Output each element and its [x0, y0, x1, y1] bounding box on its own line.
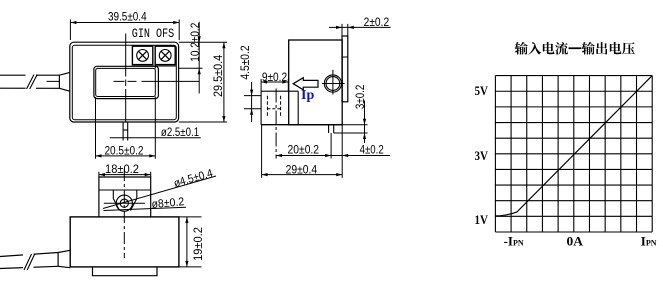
bottom view: vertical centre line: [123, 169, 125, 258]
svg-text:3V: 3V: [475, 148, 489, 163]
svg-text:18±0.2: 18±0.2: [105, 164, 139, 176]
dimension 3±0.2 extension top: [342, 124, 367, 126]
leader line for pin diameter: [110, 137, 201, 139]
dimension 29.5±0.4 extension bottom: [179, 121, 227, 123]
dimension 19±0.2 extension bottom: [179, 266, 202, 268]
bottom view: cable upper line: [0, 253, 58, 257]
svg-text:20±0.2: 20±0.2: [288, 145, 320, 157]
svg-text:39.5±0.4: 39.5±0.4: [108, 11, 147, 23]
dimension 10.2±0.2 line: [198, 22, 200, 94]
top view: cable break slash 1: [27, 75, 35, 90]
top view: terminal block bottom line: [132, 65, 177, 67]
svg-text:3±0.2: 3±0.2: [355, 85, 367, 109]
top view: screw 1 circle with cross: [137, 50, 149, 62]
top view: cable lower line: [0, 87, 59, 89]
top view: window outer outline: [94, 66, 158, 98]
top view: terminal screw square 2: [155, 46, 175, 64]
chart transfer-function curve: [495, 76, 652, 216]
top view: cable upper line: [0, 74, 59, 76]
bottom view: cable lower line: [0, 266, 58, 268]
svg-text:-IPN: -IPN: [504, 233, 524, 248]
bottom view: body outline: [70, 217, 179, 267]
dimension 20±0.2 and 4±0.2 line: [276, 155, 390, 157]
bottom view: horizontal centre line: [104, 202, 145, 204]
dimension 29±0.4 extension right: [341, 125, 343, 178]
dimension 20±0.2 pin centre extension: [330, 133, 332, 159]
side view: screw cross vertical: [332, 70, 334, 95]
dimension 9±0.2 extension left: [260, 79, 262, 91]
side view: cable centre line: [275, 89, 277, 159]
dimension 18±0.2 extension right: [150, 172, 152, 177]
side view: screw outer circle: [324, 75, 341, 92]
top view: sensor body outer outline: [70, 42, 179, 122]
svg-text:ø8±0.2: ø8±0.2: [151, 196, 185, 211]
bottom view: cable gland: [58, 250, 70, 267]
svg-text:GIN OFS: GIN OFS: [132, 27, 174, 41]
dimension 29.5±0.4 extension top: [179, 41, 227, 43]
dimension 4.5±0.2 extension top: [244, 95, 261, 97]
svg-text:5V: 5V: [475, 83, 489, 98]
bottom view: boss step line: [99, 189, 151, 191]
side view: bottom pin: [329, 125, 334, 133]
bottom view: bottom step: [93, 267, 158, 276]
dimension 39.5±0.4 extension left: [69, 20, 71, 41]
dimension 18±0.2 line: [99, 174, 151, 176]
dimension 9±0.2 extension right: [287, 79, 289, 91]
dimension 20.5±0.2 extension left: [95, 97, 97, 159]
dimension 10.2±0.2 extension: [179, 67, 203, 69]
top view: pin left side: [122, 122, 124, 141]
bottom view: boss inner left line: [112, 190, 114, 199]
bottom view: boss inner right line: [136, 190, 138, 199]
leader line ø4.5: [103, 176, 216, 209]
side view: mounting tab: [342, 36, 348, 102]
dimension 2±0.2 extension left: [341, 24, 343, 37]
side view: hidden hole bottom: [267, 108, 280, 110]
top view: sensor body inner outline: [72, 45, 176, 120]
svg-text:4±0.2: 4±0.2: [360, 145, 384, 157]
top view: line between terminal squares: [154, 65, 156, 69]
dimension 39.5±0.4 extension right: [178, 20, 180, 41]
dimension 19±0.2 line: [186, 217, 188, 267]
side view: gland block top: [261, 90, 298, 92]
side view: bottom edge extended: [261, 124, 342, 126]
side view: body outline: [289, 40, 343, 125]
dimension 4.5±0.2 extension bottom: [244, 108, 261, 110]
top view: window inner outline: [96, 68, 156, 96]
dimension 9±0.2 line: [261, 81, 288, 83]
dimension 2±0.2 line: [329, 26, 391, 28]
side view: hidden hole right: [280, 96, 282, 117]
dimension 29±0.4 line: [262, 174, 343, 176]
side view: hidden hole left: [266, 96, 268, 117]
svg-text:4.5±0.2: 4.5±0.2: [240, 45, 252, 79]
dimension 18±0.2 extension left: [98, 172, 100, 177]
bottom view: boss hole circle: [120, 199, 128, 207]
svg-text:9±0.2: 9±0.2: [262, 72, 287, 84]
bottom view: cable break slash 1: [24, 254, 32, 270]
bottom view: cable break slash 2: [27, 254, 35, 270]
top view: vertical centre line: [125, 34, 127, 123]
top view: cable break slash 2: [30, 75, 38, 90]
chart grid: [495, 76, 652, 232]
svg-text:IPN: IPN: [641, 233, 657, 248]
svg-text:19±0.2: 19±0.2: [193, 227, 205, 261]
dimension 29.5±0.4 line: [223, 42, 225, 122]
dimension 29±0.4 extension left: [261, 125, 263, 178]
dimension 3±0.2 line: [364, 101, 366, 144]
dimension 39.5±0.4 line: [70, 22, 179, 24]
side view: screw inner circle: [326, 77, 340, 91]
bottom view: boss outline: [99, 177, 151, 217]
arrow Ip (primary current direction): [293, 78, 318, 90]
side view: gland inner wall: [297, 91, 299, 125]
top view: terminal screw square 1: [132, 46, 152, 64]
svg-text:2±0.2: 2±0.2: [364, 17, 390, 29]
top view: horizontal centre line: [47, 80, 200, 82]
dimension 4.5±0.2 line: [251, 82, 253, 122]
dimension 20.5±0.2 extension right: [154, 97, 156, 159]
top view: cable break gap: [26, 73, 37, 90]
dimension 20.5±0.2 line: [96, 155, 156, 157]
bottom view: boss chamfer left: [113, 199, 119, 211]
svg-text:29±0.4: 29±0.4: [286, 165, 318, 177]
top view: cable gland trapezoid: [59, 72, 69, 91]
svg-text:20.5±0.2: 20.5±0.2: [104, 145, 143, 157]
svg-text:29.5±0.4: 29.5±0.4: [213, 54, 225, 97]
side view: screw cross horizontal: [322, 83, 345, 85]
top view: pin bottom cap: [123, 129, 128, 131]
svg-text:ø4.5±0.4: ø4.5±0.4: [172, 167, 214, 190]
leader line ø8: [104, 207, 187, 210]
svg-text:Ip: Ip: [301, 88, 314, 103]
svg-text:1V: 1V: [475, 212, 489, 227]
svg-text:0A: 0A: [567, 233, 584, 248]
dimension 3±0.2 extension bottom: [334, 132, 368, 134]
dimension 19±0.2 extension top: [179, 216, 202, 218]
top view: screw 2 circle with cross: [159, 50, 171, 62]
dimension 2±0.2 extension right: [347, 24, 349, 37]
svg-text:ø2.5±0.1: ø2.5±0.1: [161, 127, 199, 139]
side view: mounting tab inner tick: [342, 56, 348, 58]
bottom view: cable break gap: [23, 252, 34, 270]
bottom view: boss outer circle: [116, 195, 132, 211]
chart title 输入电流—输出电压: [515, 42, 528, 55]
top view: pin right side: [127, 122, 129, 141]
side view: gland block left: [260, 91, 262, 125]
bottom view: boss chamfer right: [131, 199, 137, 211]
